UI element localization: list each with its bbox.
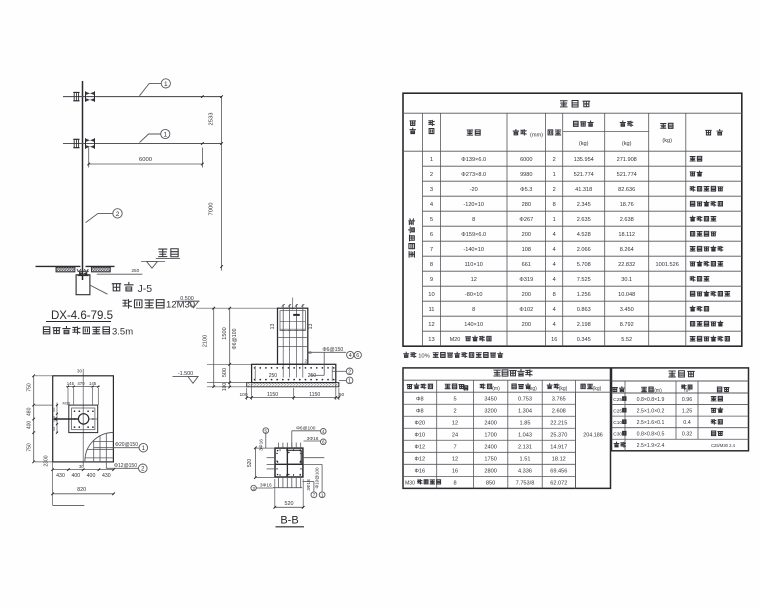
svg-text:Φ6@100: Φ6@100 (232, 328, 238, 349)
svg-text:2.131: 2.131 (518, 444, 532, 450)
callout circle 2 (post) (113, 209, 122, 218)
svg-text:18.12: 18.12 (552, 456, 566, 462)
svg-text:3.5m: 3.5m (112, 327, 133, 338)
leader to circle 2 (333, 370, 347, 372)
anchor cluster at post base (77, 269, 89, 276)
svg-text:7: 7 (453, 444, 456, 450)
svg-text:5: 5 (430, 217, 433, 223)
svg-text:3: 3 (430, 187, 433, 193)
ground level symbol (141, 261, 165, 268)
svg-text:Φ16: Φ16 (414, 468, 425, 474)
section bottom dim ext lines (247, 384, 339, 400)
B-B leader bottom-right 2 (303, 458, 324, 492)
svg-text:(kg): (kg) (559, 386, 568, 392)
svg-text:400: 400 (71, 473, 80, 479)
svg-text:7.753/8: 7.753/8 (516, 480, 535, 486)
beam 2 (lower horizontal member) (63, 143, 222, 145)
svg-text:400: 400 (87, 473, 96, 479)
svg-text:7.525: 7.525 (577, 277, 591, 283)
svg-text:8: 8 (472, 217, 475, 223)
plan left dim line (32, 375, 35, 464)
svg-text:3Φ18: 3Φ18 (306, 479, 311, 491)
pier stirrup lines (278, 321, 308, 346)
footing rebar dots (254, 367, 335, 380)
svg-text:C25: C25 (613, 408, 622, 414)
svg-text:7000: 7000 (209, 203, 215, 216)
svg-text:2: 2 (430, 172, 433, 178)
svg-text:4: 4 (553, 277, 556, 283)
ground hatch right (91, 267, 110, 272)
B-B bottom dim 520 (274, 501, 305, 509)
B-B callout circle 5 (263, 428, 269, 434)
material table item-class vertical label (409, 219, 415, 257)
svg-text:Φ273×8.0: Φ273×8.0 (461, 172, 486, 178)
svg-text:Φ12: Φ12 (414, 444, 425, 450)
svg-text:9: 9 (430, 277, 433, 283)
pier vertical rebar into footing (283, 331, 303, 378)
dim text 7000 (209, 203, 215, 216)
svg-text:62.072: 62.072 (550, 480, 567, 486)
material table total weight (656, 262, 679, 268)
svg-text:69.456: 69.456 (550, 468, 567, 474)
plan leader Φ20@150 (94, 442, 139, 448)
section dim line 1500/500/100 (228, 307, 231, 388)
B-B top rebar stubs (279, 443, 301, 449)
plan left dim ext lines (35, 376, 53, 462)
plan dim 750 upper (26, 383, 32, 392)
svg-text:820: 820 (77, 487, 86, 493)
svg-text:J-5: J-5 (138, 283, 153, 295)
svg-text:13: 13 (428, 337, 434, 343)
dim 50 right (339, 392, 345, 398)
B-B leader top-right 2 (304, 436, 321, 442)
svg-text:-20: -20 (470, 187, 478, 193)
plan total dim 820 (51, 487, 115, 495)
right dim line (2533 / 7000) (201, 95, 223, 270)
svg-text:Φ10@100: Φ10@100 (314, 467, 319, 489)
B-B bottom collector line (273, 487, 302, 489)
svg-text:250: 250 (308, 373, 317, 379)
plan rebar mesh (85, 433, 113, 462)
footing dim 250 right (308, 373, 317, 379)
svg-text:Φ5.3: Φ5.3 (520, 187, 532, 193)
pier side mark 13 right (308, 324, 314, 330)
svg-text:1: 1 (430, 157, 433, 163)
svg-text:1: 1 (142, 446, 146, 452)
svg-text:1: 1 (553, 172, 556, 178)
svg-text:2: 2 (453, 408, 456, 414)
svg-text:(kg): (kg) (662, 138, 672, 144)
B-B leader left-bottom (256, 482, 273, 488)
svg-text:2.198: 2.198 (577, 322, 591, 328)
concrete table grid (612, 368, 749, 451)
svg-text:Φ10: Φ10 (414, 432, 425, 438)
svg-text:C25/M30 2.4: C25/M30 2.4 (711, 443, 736, 448)
svg-text:430: 430 (102, 473, 111, 479)
svg-text:200: 200 (522, 292, 531, 298)
svg-text:3450: 3450 (484, 396, 496, 402)
svg-text:4: 4 (553, 232, 556, 238)
footing stirrup verticals (255, 366, 332, 381)
foundation box J-5 (76, 275, 90, 295)
svg-text:25.370: 25.370 (550, 432, 567, 438)
svg-text:30: 30 (77, 369, 82, 374)
plan callout circle 1 (139, 443, 148, 452)
svg-text:5.708: 5.708 (577, 262, 591, 268)
svg-text:Φ20@150: Φ20@150 (115, 442, 138, 448)
plan dim 400 a (71, 473, 80, 479)
svg-text:12: 12 (471, 277, 477, 283)
svg-text:2.638: 2.638 (620, 217, 634, 223)
footing dim 250 left (269, 373, 278, 379)
B-B callout circle 3 (251, 485, 256, 491)
dim line 6000 (87, 157, 203, 165)
material table data (428, 156, 729, 342)
svg-text:140×10: 140×10 (464, 322, 483, 328)
svg-text:200: 200 (522, 322, 531, 328)
svg-text:12: 12 (452, 420, 458, 426)
svg-text:1150: 1150 (309, 392, 320, 398)
svg-text:850: 850 (486, 480, 495, 486)
plan bolt extension lines (68, 388, 98, 405)
callout circle 4 (347, 351, 354, 359)
plan dim 430 b (102, 473, 111, 479)
svg-text:6: 6 (322, 440, 325, 445)
svg-text:Φ267: Φ267 (519, 217, 533, 223)
svg-text:6: 6 (430, 232, 433, 238)
pier outline (278, 308, 308, 364)
B-B callout circle 1b (319, 492, 325, 498)
section dim ext line at slab bottom (207, 386, 247, 388)
B-B inner small stirrup (287, 450, 301, 464)
svg-text:1700: 1700 (484, 432, 496, 438)
dim 1150 left (267, 392, 278, 398)
svg-text:0.8×0.8×0.5: 0.8×0.8×0.5 (637, 432, 665, 438)
svg-text:250: 250 (269, 373, 278, 379)
svg-text:110×10: 110×10 (464, 262, 482, 268)
svg-text:145: 145 (89, 381, 97, 386)
svg-text:5.52: 5.52 (621, 337, 632, 343)
svg-text:3Φ16: 3Φ16 (258, 439, 264, 451)
svg-text:145: 145 (67, 381, 75, 386)
svg-text:2533: 2533 (209, 113, 215, 126)
ground hatch left (56, 267, 75, 272)
svg-text:3Φ16: 3Φ16 (307, 436, 319, 442)
plan bolt dim line (66, 386, 100, 388)
B-B leader top-left (258, 433, 266, 451)
material table title (561, 101, 590, 107)
small mark 2 (304, 359, 307, 365)
level mark -1.500 (173, 371, 199, 383)
svg-text:10%: 10% (418, 354, 430, 360)
svg-text:(kg): (kg) (579, 141, 589, 147)
svg-text:5: 5 (265, 428, 268, 433)
svg-text:9980: 9980 (520, 172, 532, 178)
svg-text:Φ12: Φ12 (414, 456, 425, 462)
svg-text:22.215: 22.215 (550, 420, 567, 426)
svg-text:Φ8: Φ8 (416, 408, 424, 414)
concrete table last row (614, 442, 735, 449)
svg-text:3200: 3200 (484, 408, 496, 414)
footing outline (252, 364, 336, 382)
plan dim 750 lower (26, 443, 32, 452)
svg-text:470: 470 (77, 381, 85, 386)
svg-text:(kg): (kg) (622, 141, 632, 147)
svg-text:(mm): (mm) (530, 133, 543, 139)
callout circle 2 (footing) (346, 368, 353, 375)
svg-text:2.5×1.6×0.1: 2.5×1.6×0.1 (637, 420, 665, 426)
callout circle 1 (beam 1) (161, 79, 170, 88)
dim text 1500 (222, 327, 228, 339)
svg-text:280: 280 (522, 202, 531, 208)
svg-text:8: 8 (553, 202, 556, 208)
svg-text:Φ20: Φ20 (414, 420, 425, 426)
plan anchor plate outer (69, 405, 98, 433)
svg-text:4: 4 (553, 322, 556, 328)
svg-text:6000: 6000 (139, 157, 152, 163)
plan dim 430 a (56, 473, 65, 479)
plan tiny 30 bottom (79, 464, 84, 469)
svg-text:1: 1 (321, 493, 324, 498)
svg-text:M30: M30 (405, 480, 415, 486)
caption 设计标志牌高度3.5m (43, 327, 133, 338)
plan leader Φ12@150 (106, 462, 138, 469)
beam 1 (top horizontal member) (63, 96, 222, 98)
svg-text:100: 100 (222, 383, 228, 392)
svg-text:8: 8 (430, 262, 433, 268)
svg-text:0.753: 0.753 (518, 396, 532, 402)
svg-text:520: 520 (247, 459, 253, 468)
svg-text:Φ139×6.0: Φ139×6.0 (461, 157, 486, 163)
svg-text:30: 30 (79, 464, 84, 469)
dim 1150 right (309, 392, 320, 398)
svg-text:8: 8 (553, 292, 556, 298)
svg-text:2800: 2800 (484, 468, 496, 474)
B-B callout circle 4b (321, 429, 327, 435)
svg-text:10: 10 (428, 292, 434, 298)
svg-text:M30: M30 (63, 401, 72, 406)
pier side mark 13 left (270, 324, 276, 330)
plan column circle (78, 414, 88, 424)
section dim ext line at footing top (207, 363, 252, 365)
svg-text:Φ12@150: Φ12@150 (114, 463, 137, 469)
svg-text:140: 140 (52, 416, 56, 422)
svg-text:521.774: 521.774 (617, 172, 637, 178)
svg-text:1: 1 (163, 132, 167, 139)
section dim ext line at pier top (196, 307, 278, 309)
svg-text:18.76: 18.76 (620, 202, 634, 208)
svg-text:750: 750 (26, 443, 32, 452)
B-B column outline (275, 448, 303, 477)
svg-text:50: 50 (339, 392, 345, 398)
svg-text:480: 480 (26, 407, 32, 416)
svg-text:1.51: 1.51 (520, 456, 531, 462)
svg-text:13: 13 (308, 324, 314, 330)
svg-text:B-B: B-B (280, 515, 298, 527)
dim text 2533 (209, 113, 215, 126)
svg-text:1: 1 (164, 81, 168, 88)
sign post (vertical pole) (82, 81, 84, 280)
svg-text:0.96: 0.96 (682, 397, 693, 403)
svg-text:271.908: 271.908 (617, 157, 637, 163)
svg-text:4: 4 (322, 429, 325, 434)
svg-text:8.264: 8.264 (620, 247, 634, 253)
label 基础 J-5 (112, 282, 152, 295)
svg-text:4.336: 4.336 (518, 468, 532, 474)
svg-text:(m): (m) (492, 386, 500, 392)
svg-text:3.765: 3.765 (552, 396, 566, 402)
material table grid (403, 93, 742, 346)
leader to foundation label (90, 285, 108, 294)
svg-text:22.832: 22.832 (618, 262, 635, 268)
pier stirrup rectangle (280, 311, 306, 331)
svg-text:1.304: 1.304 (518, 408, 532, 414)
svg-text:2100: 2100 (203, 335, 209, 347)
svg-text:0.345: 0.345 (577, 337, 591, 343)
plan rebar zone quarter arc (85, 433, 114, 462)
concrete table data (613, 396, 722, 437)
svg-text:661: 661 (522, 262, 531, 268)
svg-text:Φ8: Φ8 (416, 396, 424, 402)
svg-text:1.043: 1.043 (518, 432, 532, 438)
section bottom dim line (245, 396, 340, 399)
svg-text:3.450: 3.450 (620, 307, 634, 313)
B-B title (276, 515, 305, 527)
concrete table headers (613, 385, 729, 394)
svg-text:4: 4 (553, 307, 556, 313)
svg-text:5: 5 (453, 396, 456, 402)
svg-text:8.792: 8.792 (620, 322, 634, 328)
svg-text:14.917: 14.917 (550, 444, 567, 450)
ground label 地面 (156, 249, 180, 259)
rebar table total (583, 432, 603, 438)
leader to circle 1 (339, 379, 346, 381)
plan anchor plate inner (72, 408, 95, 430)
svg-text:2: 2 (553, 187, 556, 193)
B-B rebar dots (277, 450, 301, 476)
plan lower tail lines (53, 462, 85, 506)
svg-text:2400: 2400 (484, 420, 496, 426)
svg-text:6000: 6000 (520, 157, 532, 163)
svg-text:2: 2 (116, 211, 120, 218)
rebar table title 基础配筋表 (494, 370, 532, 377)
anchor plate mark (293, 314, 300, 316)
svg-text:(kg): (kg) (528, 386, 537, 392)
svg-text:1750: 1750 (484, 456, 496, 462)
svg-text:2.066: 2.066 (577, 247, 591, 253)
svg-text:4: 4 (349, 353, 352, 359)
dim 100 left (239, 392, 247, 398)
svg-text:8: 8 (453, 480, 456, 486)
ground line (36, 265, 115, 267)
svg-text:12: 12 (428, 322, 434, 328)
svg-text:Φ6@150: Φ6@150 (322, 347, 343, 353)
svg-text:13: 13 (270, 324, 276, 330)
plan dim 400 (26, 421, 32, 430)
svg-text:1150: 1150 (267, 392, 278, 398)
svg-text:41.318: 41.318 (575, 187, 592, 193)
svg-text:521.774: 521.774 (574, 172, 594, 178)
svg-text:82.636: 82.636 (618, 187, 635, 193)
small mark Φ8 (307, 351, 313, 354)
svg-text:250: 250 (131, 268, 139, 273)
svg-text:0.32: 0.32 (682, 432, 693, 438)
svg-text:2.608: 2.608 (552, 408, 566, 414)
svg-text:2: 2 (348, 369, 351, 375)
svg-text:4.528: 4.528 (577, 232, 591, 238)
svg-text:200: 200 (522, 232, 531, 238)
svg-text:520: 520 (285, 501, 294, 507)
svg-text:0.4: 0.4 (683, 420, 691, 426)
svg-text:-80×10: -80×10 (465, 292, 483, 298)
plan centerline mark 30 (77, 369, 82, 374)
svg-text:Φ6@100: Φ6@100 (296, 426, 316, 432)
plan plate small dims (52, 401, 71, 434)
svg-text:C30: C30 (613, 432, 622, 438)
svg-text:M20: M20 (450, 337, 461, 343)
svg-text:100: 100 (239, 392, 247, 398)
plan dim 480 (26, 407, 32, 416)
plan footing outline (53, 376, 114, 462)
svg-text:7: 7 (430, 247, 433, 253)
svg-text:12: 12 (452, 456, 458, 462)
svg-text:1.25: 1.25 (682, 408, 693, 414)
svg-text:DX-4.6-79.5: DX-4.6-79.5 (51, 310, 113, 322)
svg-text:2: 2 (141, 467, 145, 473)
B-B callout circle 7 (311, 492, 317, 498)
svg-text:6: 6 (356, 353, 359, 359)
label 地脚螺栓12M30 (123, 300, 195, 311)
svg-text:4: 4 (553, 247, 556, 253)
B-B inner vertical stirrup (286, 448, 288, 477)
B-B bottom dim ext (275, 479, 303, 508)
plan centerline vertical (82, 369, 84, 467)
svg-text:2.635: 2.635 (577, 217, 591, 223)
dim text 500 (222, 368, 228, 377)
B-B left dim 520 (247, 447, 275, 479)
svg-text:2300: 2300 (44, 455, 50, 466)
tiny dim 250 at ground (131, 268, 139, 273)
svg-text:3Φ16: 3Φ16 (260, 482, 272, 488)
svg-text:0.8×0.8×1.9: 0.8×0.8×1.9 (637, 397, 665, 403)
svg-text:1: 1 (348, 379, 351, 385)
svg-text:45: 45 (52, 408, 56, 412)
svg-text:2400: 2400 (484, 444, 496, 450)
svg-text:8: 8 (472, 307, 475, 313)
leader Φ6@150 (309, 347, 347, 376)
svg-text:0.863: 0.863 (577, 307, 591, 313)
svg-text:18.112: 18.112 (618, 232, 635, 238)
plan bottom dim line (51, 468, 115, 471)
svg-text:1.256: 1.256 (577, 292, 591, 298)
dim text 100 (222, 383, 228, 392)
material table headers (410, 120, 722, 147)
rebar table grid (403, 368, 611, 488)
dim extension lines for 6000 (89, 148, 203, 168)
beam-to-post clamp bracket (lower) (73, 138, 94, 148)
svg-text:m³: m³ (684, 388, 690, 393)
svg-text:4: 4 (553, 262, 556, 268)
svg-text:3: 3 (252, 486, 255, 491)
leader to post callout (86, 213, 113, 222)
svg-text:204.186: 204.186 (583, 432, 603, 438)
svg-text:1.85: 1.85 (520, 420, 531, 426)
section dim ext line at slab top (207, 382, 247, 384)
svg-text:1: 1 (553, 217, 556, 223)
pier centerline (292, 298, 294, 310)
level mark -0.500 (176, 296, 200, 308)
B-B leader top-right 1 (292, 426, 321, 449)
